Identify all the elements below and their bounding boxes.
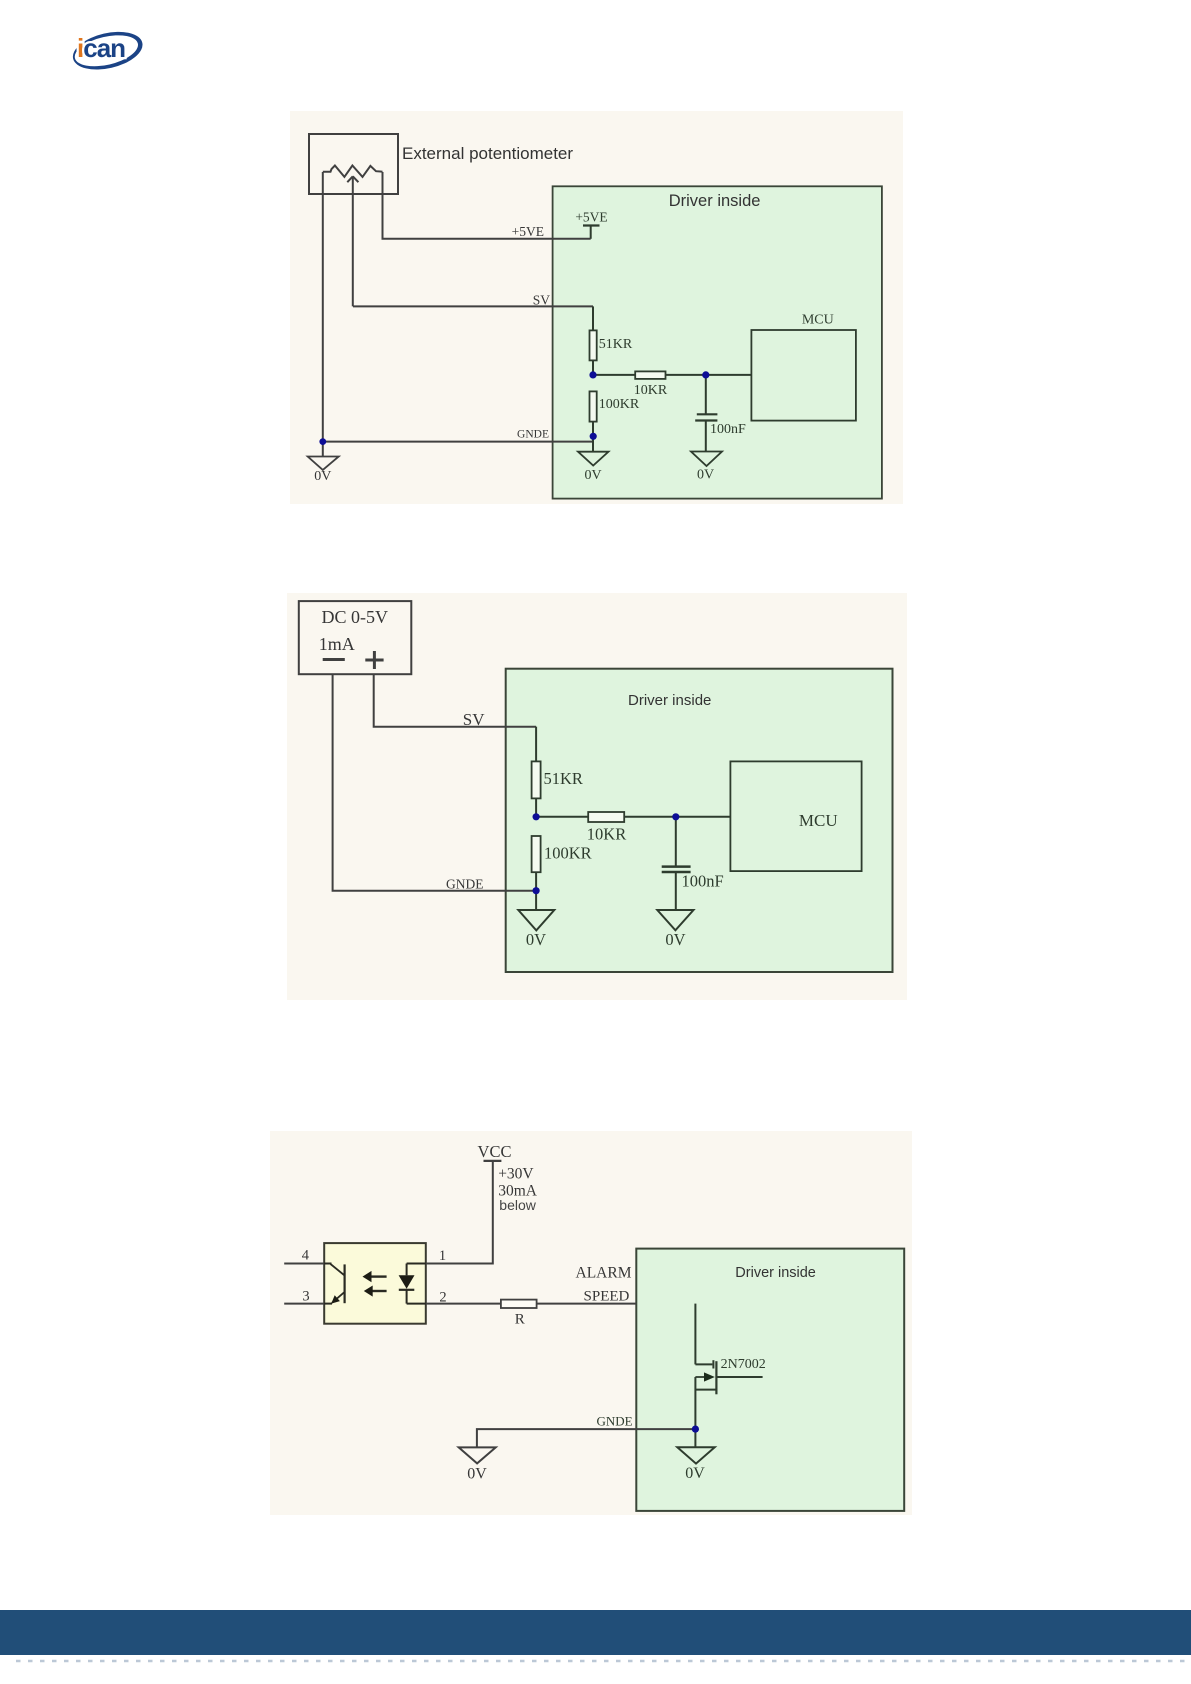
svg-text:1mA: 1mA [319, 634, 355, 654]
svg-text:+5VE: +5VE [512, 224, 544, 239]
svg-text:External potentiometer: External potentiometer [402, 144, 573, 163]
svg-text:0V: 0V [685, 1465, 705, 1482]
svg-text:0V: 0V [697, 468, 714, 483]
svg-text:0V: 0V [467, 1466, 487, 1483]
svg-text:GNDE: GNDE [596, 1414, 632, 1429]
svg-text:SV: SV [463, 710, 485, 729]
svg-text:+30V: +30V [498, 1166, 534, 1183]
svg-text:MCU: MCU [799, 811, 838, 830]
svg-text:VCC: VCC [478, 1142, 512, 1161]
svg-text:ALARM: ALARM [576, 1265, 632, 1282]
svg-text:3: 3 [302, 1289, 309, 1305]
svg-text:below: below [499, 1197, 536, 1213]
svg-text:Driver inside: Driver inside [735, 1265, 816, 1281]
svg-text:+5VE: +5VE [575, 210, 607, 225]
svg-text:2: 2 [439, 1290, 446, 1306]
svg-text:100nF: 100nF [710, 422, 746, 437]
svg-text:0V: 0V [584, 468, 601, 483]
svg-text:4: 4 [302, 1248, 310, 1264]
svg-text:51KR: 51KR [544, 769, 583, 788]
svg-text:0V: 0V [526, 930, 546, 949]
svg-text:SV: SV [533, 293, 551, 308]
svg-text:100KR: 100KR [599, 397, 640, 412]
svg-text:100nF: 100nF [682, 872, 724, 891]
svg-text:MCU: MCU [802, 313, 834, 328]
svg-text:0V: 0V [665, 930, 685, 949]
svg-text:GNDE: GNDE [517, 429, 549, 441]
svg-text:Driver inside: Driver inside [669, 192, 761, 210]
svg-text:10KR: 10KR [587, 825, 626, 844]
svg-text:Driver inside: Driver inside [628, 692, 711, 709]
svg-text:100KR: 100KR [544, 844, 592, 863]
svg-text:GNDE: GNDE [446, 877, 484, 892]
svg-text:R: R [515, 1312, 525, 1328]
svg-text:51KR: 51KR [599, 337, 633, 352]
svg-text:2N7002: 2N7002 [721, 1357, 766, 1372]
svg-text:SPEED: SPEED [584, 1289, 630, 1305]
svg-text:DC 0-5V: DC 0-5V [322, 607, 389, 627]
svg-text:0V: 0V [314, 469, 331, 484]
svg-text:10KR: 10KR [634, 383, 668, 398]
svg-text:ican: ican [77, 33, 125, 63]
svg-text:1: 1 [439, 1248, 446, 1264]
